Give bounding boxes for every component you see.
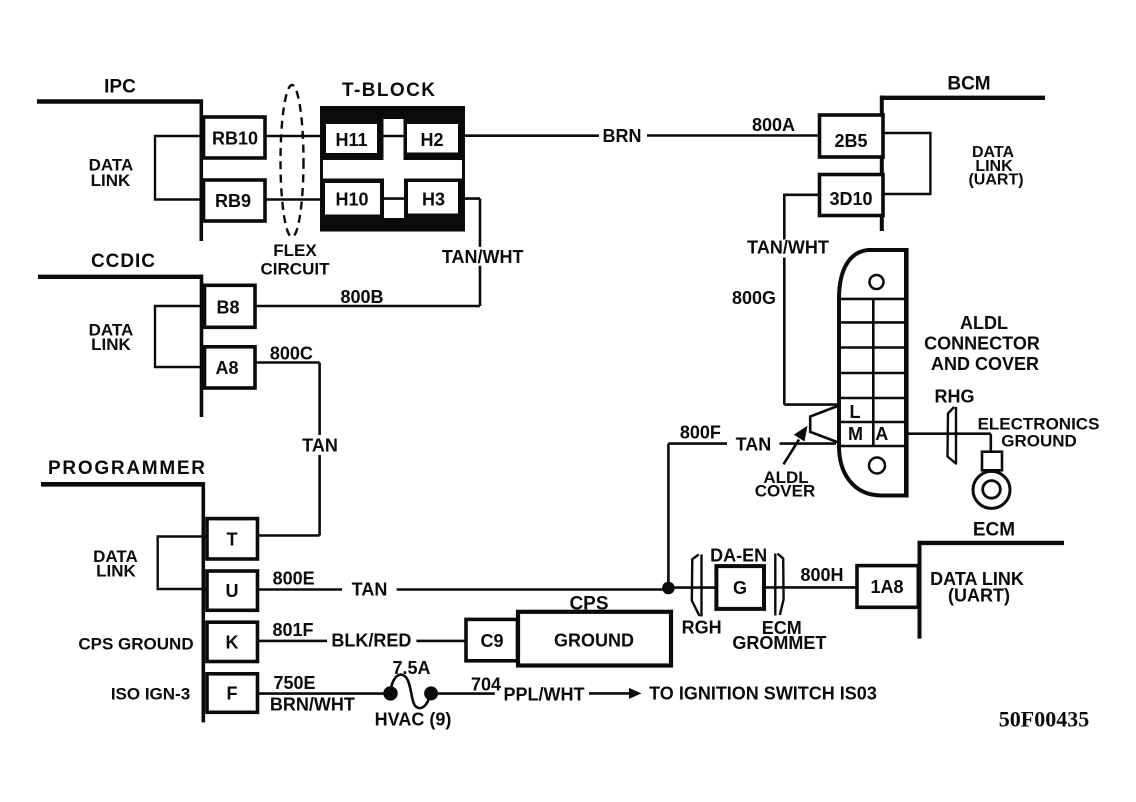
wire H2 to 2B5 (BRN 800A): [458, 134, 599, 137]
svg-text:50F00435: 50F00435: [999, 707, 1089, 732]
junction node (800E/800F): [662, 582, 675, 595]
svg-text:LINK: LINK: [91, 171, 131, 190]
svg-text:800A: 800A: [752, 115, 795, 135]
wire H11 to H2: [377, 135, 407, 138]
svg-text:(UART): (UART): [948, 586, 1010, 606]
BCM header line: [882, 96, 1045, 100]
ALDL connector body: [839, 248, 906, 498]
DATA LINK bracket (CCDIC): [155, 306, 205, 367]
terminal F: [207, 674, 258, 713]
svg-text:BRN: BRN: [603, 126, 642, 146]
wire F to fuse (750E BRN/WHT): [258, 692, 385, 695]
svg-text:CIRCUIT: CIRCUIT: [261, 260, 331, 279]
connector A8: [205, 347, 256, 388]
wire U to junction (800E TAN): [258, 588, 669, 591]
svg-text:FLEX: FLEX: [273, 241, 317, 260]
svg-text:GROMMET: GROMMET: [732, 633, 826, 653]
svg-text:7.5A: 7.5A: [392, 658, 430, 678]
svg-text:DA-EN: DA-EN: [710, 546, 767, 566]
svg-text:H3: H3: [422, 190, 445, 210]
wire G to 1A8 (800H): [764, 586, 857, 589]
svg-text:GROUND: GROUND: [554, 631, 634, 651]
svg-text:CCDIC: CCDIC: [91, 251, 155, 272]
svg-text:(UART): (UART): [968, 172, 1023, 189]
svg-text:K: K: [226, 632, 239, 652]
G box: [716, 566, 764, 609]
svg-text:TAN/WHT: TAN/WHT: [442, 247, 524, 267]
svg-text:PPL/WHT: PPL/WHT: [504, 685, 585, 705]
svg-text:M: M: [848, 424, 863, 444]
svg-text:800E: 800E: [273, 569, 315, 589]
electronics ground lug: [982, 452, 1002, 471]
svg-text:L: L: [850, 402, 861, 422]
svg-text:800B: 800B: [340, 287, 383, 307]
svg-text:1A8: 1A8: [870, 577, 903, 597]
svg-text:G: G: [733, 578, 747, 598]
terminal U: [207, 571, 258, 610]
svg-text:LINK: LINK: [91, 335, 131, 354]
svg-text:T: T: [227, 529, 238, 549]
svg-text:GROUND: GROUND: [1001, 432, 1077, 451]
wire 800F up to ALDL (TAN): [668, 444, 836, 588]
svg-text:ISO IGN-3: ISO IGN-3: [111, 685, 190, 704]
connector 2B5: [820, 115, 884, 157]
svg-text:HVAC (9): HVAC (9): [375, 710, 452, 730]
svg-text:H11: H11: [335, 130, 367, 150]
terminal K: [207, 622, 258, 661]
svg-text:800G: 800G: [732, 288, 776, 308]
svg-text:RB10: RB10: [212, 129, 258, 149]
IPC vertical bus: [200, 100, 204, 242]
svg-text:TAN: TAN: [352, 580, 388, 600]
DATA LINK (UART) bracket BCM: [883, 133, 930, 194]
svg-text:ALDL: ALDL: [960, 313, 1008, 333]
wire fuse to arrow (704 PPL/WHT): [438, 692, 495, 695]
svg-text:801F: 801F: [272, 620, 313, 640]
DATA LINK bracket (PROGRAMMER): [158, 537, 207, 590]
ECM header line: [918, 541, 1064, 545]
BCM vertical bus: [880, 96, 884, 232]
svg-text:TO IGNITION SWITCH IS03: TO IGNITION SWITCH IS03: [649, 684, 877, 704]
fuse HVAC 7.5A: [383, 686, 397, 700]
svg-text:H10: H10: [335, 190, 368, 210]
svg-text:U: U: [226, 581, 239, 601]
CCDIC vertical bus: [200, 275, 204, 418]
wire 3D10 (TAN/WHT 800G): [784, 195, 838, 405]
arrow to ignition switch: [589, 692, 629, 695]
svg-text:B8: B8: [216, 298, 239, 318]
ALDL cover arrow: [784, 440, 800, 465]
T-BLOCK body: [320, 106, 465, 232]
svg-text:LINK: LINK: [96, 562, 136, 581]
svg-text:CONNECTOR: CONNECTOR: [924, 334, 1040, 354]
svg-text:BRN/WHT: BRN/WHT: [270, 695, 355, 715]
svg-text:TAN: TAN: [302, 436, 338, 456]
svg-text:CPS: CPS: [569, 594, 608, 615]
wire junction to G box: [674, 586, 716, 589]
svg-text:COVER: COVER: [755, 482, 815, 501]
connector B8: [205, 285, 256, 327]
svg-text:800H: 800H: [800, 565, 843, 585]
terminal T: [207, 519, 258, 559]
CCDIC header line: [38, 275, 203, 279]
svg-text:C9: C9: [480, 631, 503, 651]
svg-text:704: 704: [471, 675, 501, 695]
IPC header line: [37, 99, 203, 103]
svg-text:3D10: 3D10: [829, 189, 872, 209]
wire RB10 to H11: [265, 135, 326, 138]
wire A8 down to T (800C TAN): [255, 363, 320, 536]
wire A to electronics ground: [907, 434, 991, 452]
svg-text:AND COVER: AND COVER: [931, 354, 1039, 374]
svg-text:750E: 750E: [273, 673, 315, 693]
svg-text:TAN: TAN: [736, 435, 772, 455]
connector C9: [466, 619, 518, 660]
PROGRAMMER header line: [41, 482, 205, 487]
svg-text:2B5: 2B5: [834, 131, 867, 151]
svg-text:800C: 800C: [270, 344, 313, 364]
wire H3 to junction (TAN/WHT): [255, 199, 480, 306]
svg-text:CPS GROUND: CPS GROUND: [78, 635, 193, 654]
ECM grommet: [775, 554, 783, 616]
svg-text:TAN/WHT: TAN/WHT: [747, 238, 829, 258]
svg-text:F: F: [227, 684, 238, 704]
svg-text:H2: H2: [420, 130, 443, 150]
CPS GROUND box: [518, 612, 671, 666]
svg-text:IPC: IPC: [104, 77, 136, 98]
connector RB9: [204, 180, 266, 221]
connector 1A8: [857, 566, 918, 608]
svg-text:BLK/RED: BLK/RED: [331, 631, 411, 651]
ECM vertical bus: [918, 541, 922, 639]
RGH grommet (DA-EN): [692, 555, 702, 617]
connector 3D10: [820, 175, 884, 216]
flex circuit ellipse: [281, 85, 304, 237]
wire RB9 to H10: [265, 198, 326, 201]
connector RB10: [204, 117, 266, 158]
svg-text:PROGRAMMER: PROGRAMMER: [48, 458, 205, 479]
DATA LINK bracket (IPC): [155, 136, 203, 200]
wire K to C9 (801F BLK/RED): [258, 640, 467, 643]
svg-text:ECM: ECM: [973, 520, 1015, 541]
svg-text:800F: 800F: [680, 423, 721, 443]
svg-text:RB9: RB9: [215, 191, 251, 211]
wire H10 to H3: [380, 197, 408, 200]
svg-text:BCM: BCM: [947, 74, 990, 95]
svg-text:A: A: [875, 424, 888, 444]
RHG grommet: [948, 407, 957, 464]
ALDL cover wedge: [810, 406, 838, 443]
svg-text:RHG: RHG: [935, 387, 975, 407]
PROGRAMMER vertical bus: [202, 482, 206, 722]
svg-text:RGH: RGH: [682, 618, 722, 638]
svg-text:A8: A8: [215, 358, 238, 378]
